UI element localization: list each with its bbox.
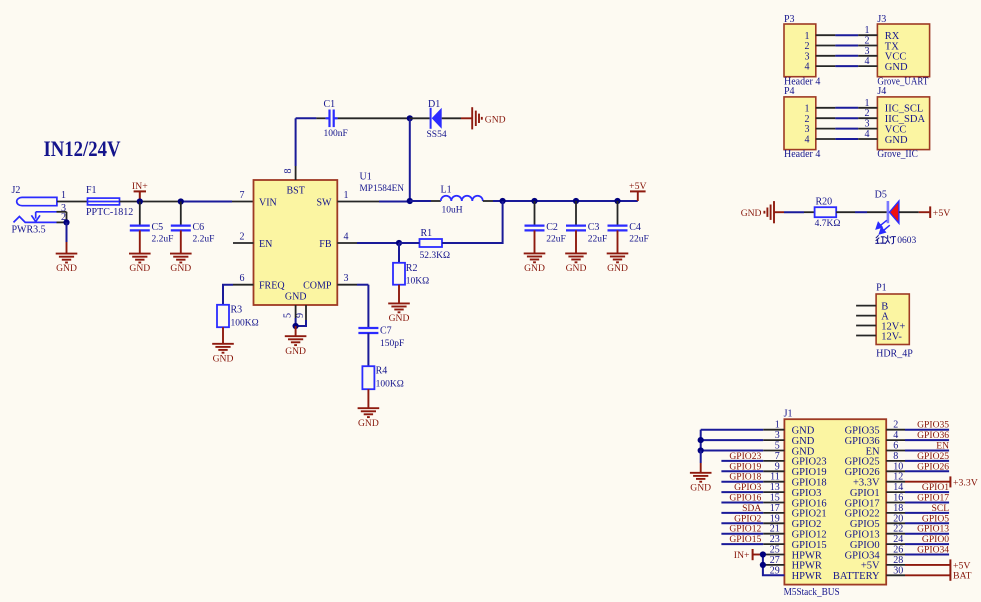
connector J2 barrel jack body [17,197,57,205]
wire net GPIO1 (right) [905,491,949,493]
svg-text:HPWR: HPWR [792,561,822,572]
wire +5V (J1 pin28) [905,564,950,566]
wire J2 to ground [66,222,68,242]
wire P4.3 to J4.3 [816,128,836,130]
J1 pin 19 stub [763,522,784,524]
svg-text:GPIO17: GPIO17 [917,493,949,504]
svg-text:R3: R3 [231,305,243,316]
J1 pin 2 stub [886,429,905,431]
svg-text:SCL: SCL [931,503,949,514]
svg-text:C1: C1 [324,99,336,110]
svg-text:GPIO13: GPIO13 [917,524,949,535]
connector P4 body [784,97,816,150]
svg-text:COMP: COMP [303,281,332,292]
svg-text:Grove_IIC: Grove_IIC [877,149,918,160]
svg-text:100nF: 100nF [324,129,348,139]
U1 pin 4 wire (FB) [337,242,357,244]
svg-text:22uF: 22uF [629,234,649,244]
svg-text:R2: R2 [406,263,418,274]
svg-text:1: 1 [805,103,810,114]
svg-text:GPIO23: GPIO23 [792,457,827,468]
J1 pin 25 stub [763,554,785,556]
svg-text:GND: GND [566,263,587,274]
svg-text:100KΩ: 100KΩ [376,379,404,389]
wire net GPIO12 [721,533,763,535]
svg-text:GND: GND [285,346,306,357]
wire net GPIO34 (right) [905,554,949,556]
svg-text:+5V: +5V [953,560,971,571]
svg-text:GND: GND [885,62,908,73]
wire net GPIO3 [721,491,763,493]
svg-text:0603: 0603 [897,236,916,246]
svg-text:EN: EN [259,239,272,250]
svg-text:EN: EN [936,441,949,452]
wire C6 to ground [180,230,182,253]
resistor R4 [362,366,374,389]
J1 pin 18 stub [886,512,905,514]
svg-text:GPIO5: GPIO5 [850,519,880,530]
J1 pin 8 stub [886,460,905,462]
node J2 pin2 junction [63,219,69,225]
svg-text:22uF: 22uF [588,234,608,244]
capacitor C5 [130,226,150,231]
U1 pin 8 wire (BST) [295,118,297,166]
svg-text:GND: GND [170,263,191,274]
inductor L1 [441,196,483,201]
U1 pin 1 wire (SW) [337,201,379,203]
svg-text:HPWR: HPWR [792,571,822,582]
node rail/C4 [614,198,620,204]
J1 pin 15 stub [763,502,784,504]
svg-text:GPIO17: GPIO17 [845,498,880,509]
svg-text:BAT: BAT [953,571,972,582]
svg-text:GPIO36: GPIO36 [917,430,949,441]
power port +5V (rail) [637,191,639,201]
P1 pin 1 stub [856,305,876,307]
wire BST loop left [296,117,317,119]
ground GND (J2) [56,254,78,263]
wire C5 upper [139,202,141,226]
U1 pin 3 wire (COMP) [337,284,357,286]
svg-text:SW: SW [317,198,333,209]
svg-text:FB: FB [319,239,332,250]
J1 pin 16 stub [886,502,905,504]
svg-text:L1: L1 [441,184,452,195]
svg-text:GPIO26: GPIO26 [917,461,949,472]
wire net GPIO5 (right) [905,522,949,524]
connector J1 body [784,419,886,584]
svg-text:GND: GND [129,263,150,274]
svg-text:J4: J4 [877,86,886,97]
wire net SCL (right) [905,512,949,514]
svg-text:M5Stack_BUS: M5Stack_BUS [784,587,840,598]
wire net GPIO26 (right) [905,470,949,472]
svg-text:GPIO36: GPIO36 [845,436,880,447]
J1 pin 28 stub [886,564,905,566]
wire net GPIO25 (right) [905,460,949,462]
J1 pin 14 stub [886,491,905,493]
svg-text:J2: J2 [12,185,21,196]
svg-text:P4: P4 [784,86,795,97]
svg-text:4: 4 [805,62,810,73]
svg-text:GPIO5: GPIO5 [922,513,949,524]
J1 pin 4 stub [886,439,905,441]
svg-text:3: 3 [805,124,810,135]
svg-text:EN: EN [866,446,880,457]
svg-text:GPIO1: GPIO1 [922,482,949,493]
wire C7 to R4 [367,333,369,366]
svg-text:GPIO1: GPIO1 [850,488,880,499]
svg-text:C7: C7 [380,325,392,336]
svg-text:D5: D5 [875,190,887,201]
wire SW to L1 [410,200,431,202]
svg-text:GPIO34: GPIO34 [917,545,949,556]
J1 pin 7 stub [763,460,784,462]
svg-text:HDR_4P: HDR_4P [876,348,913,359]
power port +5V (LED row) [929,206,931,218]
wire D5 to +5V [899,211,919,213]
resistor R2 [393,263,405,285]
wire net GPIO19 [721,470,763,472]
ground GND (C3) [565,253,587,262]
svg-text:150pF: 150pF [380,339,404,349]
wire BAT (J1 pin30) [905,574,950,576]
wire net GPIO17 (right) [905,502,949,504]
svg-text:8: 8 [283,169,294,174]
svg-text:PWR3.5: PWR3.5 [12,225,46,236]
ground GND (C5) [129,254,151,263]
node C6 [178,198,184,204]
ground GND (C2) [524,253,546,262]
U1 pin 5 wire [295,305,297,318]
svg-text:P1: P1 [876,283,887,294]
svg-text:GPIO2: GPIO2 [734,513,761,524]
ground GND rotated (LED row) [764,201,774,223]
resistor R3 [217,305,229,327]
wire J1 gnd bus [701,429,764,431]
J1 pin 13 stub [763,491,784,493]
wire R4 to ground [367,389,369,408]
node SW [407,198,413,204]
D5 value (red LED 0603) [875,235,896,244]
J1 pin 23 stub [763,543,784,545]
J2 pin 2 [57,221,67,223]
svg-text:2.2uF: 2.2uF [193,234,215,244]
svg-text:C5: C5 [152,222,164,233]
svg-text:HPWR: HPWR [792,550,822,561]
svg-text:SDA: SDA [742,503,761,514]
svg-text:GND: GND [389,313,410,324]
node IN+ / C5 [137,198,143,204]
svg-text:R4: R4 [376,366,388,377]
svg-text:4: 4 [805,135,810,146]
svg-text:P3: P3 [784,14,795,25]
svg-text:GPIO16: GPIO16 [729,493,761,504]
svg-text:GPIO25: GPIO25 [917,451,949,462]
P1 pin 4 stub [856,335,876,337]
LED D5 emission arrows [876,220,890,234]
capacitor C6 [171,226,191,231]
wire F1 to VIN rail [120,201,182,203]
wire net GPIO2 [721,522,763,524]
capacitor C2 [525,226,545,231]
svg-text:GND: GND [213,353,234,364]
svg-text:C2: C2 [546,222,558,233]
J1 pin 21 stub [763,533,784,535]
wire net GPIO18 [721,481,763,483]
wire L1 to +5V rail [483,200,493,202]
svg-text:2: 2 [805,114,810,125]
J1 pin 5 stub [763,450,784,452]
J1 pin 27 stub [763,564,785,566]
svg-text:1: 1 [865,98,870,109]
svg-text:+3.3V: +3.3V [953,477,978,488]
J1 pin 30 stub [886,574,905,576]
U1 pin 2 stub (EN) [233,242,254,244]
svg-text:GND: GND [792,426,815,437]
svg-text:1: 1 [61,190,66,201]
svg-text:6: 6 [240,273,245,284]
svg-text:IIC_SCL: IIC_SCL [885,104,924,115]
svg-text:GPIO3: GPIO3 [734,482,761,493]
wire J1 gnd drop [700,451,702,464]
J2 pin 3 [57,211,67,213]
node U1 ground junction [293,323,299,329]
ground GND (R4) [358,408,380,417]
op-amp/regulator U1 body [254,180,338,305]
svg-text:GND: GND [56,263,77,274]
svg-text:3: 3 [865,119,870,130]
wire C1 to SW node [338,117,410,119]
wire net GPIO35 (right) [905,429,949,431]
node J1 pin25 [760,551,766,557]
J1 pin 3 stub [763,439,784,441]
J1 pin 12 stub [886,481,905,483]
wire C2 to ground [534,230,536,253]
wire net GPIO0 (right) [905,543,949,545]
capacitor C7 [358,328,378,333]
svg-text:2: 2 [240,231,245,242]
svg-text:4.7KΩ: 4.7KΩ [815,219,841,229]
svg-text:IN+: IN+ [734,550,750,561]
connector P1 body [876,294,909,345]
svg-text:GND: GND [358,418,379,429]
svg-text:R20: R20 [816,197,833,208]
svg-text:GPIO15: GPIO15 [792,540,827,551]
svg-text:7: 7 [240,190,245,201]
svg-text:PPTC-1812: PPTC-1812 [86,207,133,218]
U1 pin 6 stub (FREQ) [233,284,254,286]
svg-text:3: 3 [344,273,349,284]
node rail/C3 [573,198,579,204]
svg-text:Header 4: Header 4 [784,149,820,160]
node rail/C2 [531,198,537,204]
J1 pin 1 stub [763,429,784,431]
ground GND (C4) [607,253,629,262]
svg-text:GPIO15: GPIO15 [729,534,761,545]
svg-text:GND: GND [690,482,711,493]
svg-text:GPIO16: GPIO16 [792,498,827,509]
svg-text:10KΩ: 10KΩ [406,277,429,287]
svg-text:SS54: SS54 [427,130,447,140]
svg-text:R1: R1 [421,228,433,239]
power port +5V (J1) [949,559,951,570]
wire P3.4 to J3.4 [816,65,836,67]
J1 pin 11 stub [763,481,784,483]
svg-text:4: 4 [865,129,870,140]
resistor R20 [815,207,837,217]
svg-text:BST: BST [287,186,305,197]
svg-text:MP1584EN: MP1584EN [360,184,405,194]
svg-text:2: 2 [865,108,870,119]
capacitor C1 [326,110,338,128]
svg-text:GPIO34: GPIO34 [845,550,881,561]
svg-text:F1: F1 [86,185,97,196]
svg-text:GND: GND [792,446,815,457]
wire C3 to ground [575,230,577,253]
wire net GPIO13 (right) [905,533,949,535]
power port +3.3V [949,476,951,487]
ground GND (R3) [212,344,234,353]
svg-text:GPIO26: GPIO26 [845,467,880,478]
wire FREQ corner [223,285,233,305]
node J1 gnd pin5 [698,447,704,453]
svg-text:2.2uF: 2.2uF [152,234,174,244]
wire R1 right to rail [442,201,503,243]
svg-text:GPIO12: GPIO12 [729,524,761,535]
svg-text:FREQ: FREQ [259,281,285,292]
J1 pin 17 stub [763,512,784,514]
wire P4.4 to J4.4 [816,138,836,140]
wire P4.1 to J4.1 [816,107,836,109]
svg-text:GPIO21: GPIO21 [792,509,827,520]
wire R1 left [399,242,420,244]
wire +3.3V (J1 pin12) [905,481,950,483]
node J1 pin27 [760,562,766,568]
svg-text:GPIO25: GPIO25 [845,457,880,468]
svg-text:+5V: +5V [629,181,647,192]
wire C2 upper [534,201,536,226]
P1 pin 2 stub [856,315,876,317]
power port BAT [949,570,951,581]
node FB/R1/R2 [396,240,402,246]
svg-text:100KΩ: 100KΩ [231,318,259,328]
wire R2 upper [398,243,400,263]
J1 pin 9 stub [763,470,784,472]
svg-text:IIC_SDA: IIC_SDA [885,114,926,125]
wire U1 gnd stub [295,326,297,336]
wire R3 to ground [222,327,224,344]
J1 pin 26 stub [886,554,905,556]
wire C4 upper [617,201,619,226]
wire net GPIO16 [721,502,763,504]
svg-text:VCC: VCC [885,124,907,135]
J1 pin 6 stub [886,450,905,452]
svg-text:+5V: +5V [933,208,951,219]
J2 pin2-pin3 tie [66,212,68,223]
capacitor C3 [566,226,586,231]
wire C6 upper [180,202,182,226]
svg-text:C6: C6 [193,222,205,233]
wire D1 anode to ground [442,117,461,119]
wire net EN (right) [905,450,949,452]
svg-text:GPIO2: GPIO2 [792,519,822,530]
svg-text:GND: GND [741,208,762,219]
svg-text:GPIO19: GPIO19 [792,467,827,478]
LED D5 [887,201,890,223]
svg-text:+5V: +5V [861,561,880,572]
svg-text:22uF: 22uF [546,234,566,244]
wire net GPIO23 [721,460,763,462]
svg-text:52.3KΩ: 52.3KΩ [420,251,451,261]
wire SW vertical [409,118,411,201]
svg-text:GND: GND [885,135,908,146]
wire P3.2 to J3.2 [816,45,836,47]
J1 pin 22 stub [886,533,905,535]
wire P4.2 to J4.2 [816,117,836,119]
svg-text:GPIO3: GPIO3 [792,488,822,499]
wire gnd to R20 [774,211,784,213]
svg-text:U1: U1 [360,172,372,183]
svg-text:IN12/24V: IN12/24V [44,136,121,161]
svg-text:VIN: VIN [259,198,277,209]
wire net SDA [721,512,763,514]
svg-text:GPIO23: GPIO23 [729,451,761,462]
wire J1 hpwr bus [763,555,785,576]
wire C3 upper [575,201,577,226]
svg-text:GND: GND [524,263,545,274]
svg-text:GPIO35: GPIO35 [845,426,880,437]
svg-text:C4: C4 [629,222,641,233]
svg-text:12V-: 12V- [881,331,902,342]
svg-text:GPIO35: GPIO35 [917,420,949,431]
J1 pin 24 stub [886,543,905,545]
svg-text:10uH: 10uH [442,206,463,216]
resistor R1 [420,239,443,247]
node rail/R1 [500,198,506,204]
wire P3.1 to J3.1 [816,34,836,36]
svg-text:GPIO19: GPIO19 [729,461,761,472]
ground GND (C6) [170,254,192,263]
svg-text:GPIO13: GPIO13 [845,530,880,541]
svg-text:9: 9 [295,313,306,318]
svg-text:GPIO0: GPIO0 [922,534,949,545]
svg-text:4: 4 [865,56,870,67]
wire R2 to ground [398,285,400,304]
wire net GPIO15 [721,543,763,545]
wire C4 to ground [617,230,619,253]
wire P3.3 to J3.3 [816,55,836,57]
svg-text:GPIO22: GPIO22 [845,509,880,520]
ground GND (U1) [285,336,307,345]
ground GND rotated (D1) [472,107,482,129]
J2 pin 1 [57,201,88,203]
svg-text:J1: J1 [784,409,793,420]
ground GND (J1) [690,473,712,482]
J1 pin 10 stub [886,470,905,472]
svg-text:4: 4 [344,231,349,242]
U1 pin 9 wire [305,305,307,320]
svg-text:1: 1 [344,190,349,201]
fuse F1 body [88,198,120,205]
connector J2 switch arm + tip contact [14,212,57,223]
svg-text:+3.3V: +3.3V [853,478,880,489]
svg-text:GPIO18: GPIO18 [729,472,761,483]
wire C5 to ground [139,230,141,253]
svg-text:GND: GND [792,436,815,447]
P1 pin 3 stub [856,325,876,327]
diode D1 (schottky) [430,108,432,129]
